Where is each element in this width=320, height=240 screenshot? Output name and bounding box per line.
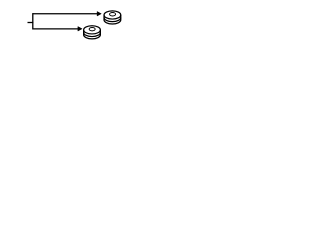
wire vertical branch (32, 13, 34, 29)
wire top branch (33, 13, 98, 15)
wire input stub (28, 22, 34, 24)
arrowhead bottom (78, 27, 82, 32)
toroid core bottom (84, 26, 101, 39)
arrowhead top (97, 12, 101, 17)
wire bottom branch (33, 28, 79, 30)
toroid core top (104, 11, 121, 24)
